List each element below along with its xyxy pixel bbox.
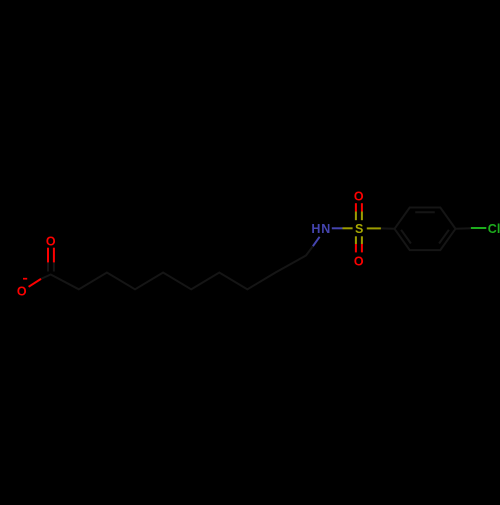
- svg-text:O: O: [46, 234, 56, 248]
- ring to Cl dark half: [456, 227, 471, 230]
- svg-text:Cl: Cl: [488, 222, 500, 236]
- ring-Cl green half: [471, 227, 486, 229]
- svg-text:S: S: [355, 222, 363, 236]
- svg-text:O: O: [354, 189, 364, 203]
- svg-text:O: O: [354, 255, 364, 269]
- N to C10 dark half: [306, 246, 313, 255]
- wire chain C1-C10 (carbon skeleton, near-black): [51, 256, 306, 290]
- N-S olive half: [343, 227, 353, 229]
- N-S blue half: [313, 228, 343, 246]
- aromatic inner lines: [415, 211, 435, 213]
- superscript minus of O-: [23, 278, 27, 280]
- O- to C1 dark half: [41, 275, 51, 279]
- S-ring olive half: [367, 227, 381, 229]
- benzene ring (dark): [395, 208, 456, 251]
- svg-text:O: O: [17, 285, 27, 299]
- carboxylate C=O red half (double bond): [29, 248, 54, 287]
- S=O bottom red halves: [355, 244, 357, 252]
- S=O top: red halves: [356, 203, 362, 252]
- S=O top olive halves: [343, 212, 381, 245]
- S=O bottom olive halves: [355, 236, 357, 244]
- svg-text:H: H: [311, 222, 320, 236]
- O- to C1 red half: [29, 279, 41, 287]
- svg-text:N: N: [321, 222, 330, 236]
- carboxylate C=O double bond dark halves: [41, 228, 471, 279]
- N-C10 blue half: [313, 237, 320, 246]
- S to ring dark half: [381, 227, 395, 229]
